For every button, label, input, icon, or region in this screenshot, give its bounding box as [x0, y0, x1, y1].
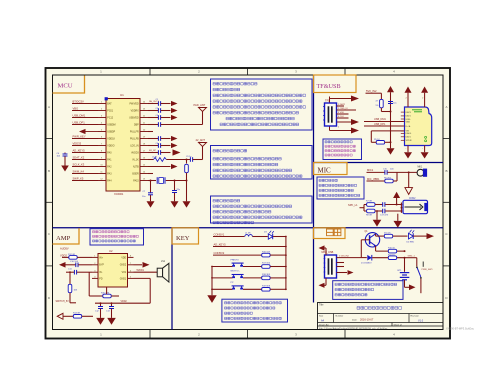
svg-text:PWR_KEY: PWR_KEY: [73, 134, 86, 138]
net port PAD_ANT triangle: [199, 108, 207, 112]
svg-text:R12 0R: R12 0R: [68, 254, 76, 256]
wire key row3 b: [270, 254, 286, 256]
wire row10: [148, 166, 171, 168]
wire row5 stub: [148, 131, 153, 133]
resistor key row6: [262, 288, 270, 292]
note box AMP line2: [93, 235, 139, 237]
wire U1 right row 1 b: [161, 103, 171, 105]
note box AMP border: [90, 229, 144, 245]
svg-text:R18 3K3: R18 3K3: [262, 274, 271, 276]
wire spk rowA b: [375, 204, 382, 206]
svg-text:R7 0R: R7 0R: [366, 201, 372, 203]
wire row12 b: [166, 180, 187, 182]
junction key left 6: [211, 288, 213, 290]
capacitor C11: [74, 270, 76, 275]
note box AMP line1: [93, 231, 130, 233]
right margin tick 1: [443, 138, 450, 140]
U1 right pin 4 stub: [140, 124, 148, 126]
note box 1 text line: [213, 83, 257, 86]
wire amp R13 link: [69, 272, 71, 284]
wire U1 right row 7 b: [161, 145, 171, 147]
left margin tick 1: [46, 138, 53, 140]
wire net BT/DC5V: [72, 103, 98, 105]
junction jack vcc: [396, 204, 398, 206]
wire amp row3 right: [134, 271, 158, 273]
svg-text:R8 0R: R8 0R: [366, 215, 372, 217]
svg-text:PA_OUT1: PA_OUT1: [149, 100, 160, 103]
power arrow amp out: [143, 262, 150, 268]
ground under C12: [96, 318, 105, 325]
note box 2 border: [211, 146, 313, 180]
capacitor C on row 3: [158, 115, 160, 120]
wire row4 a: [148, 124, 158, 126]
U3 green marking: [412, 110, 422, 112]
wire U1 right row 6 b: [161, 138, 171, 140]
note box 1 text line: [220, 123, 299, 126]
svg-text:5V0_IN2: 5V0_IN2: [366, 89, 377, 93]
U2 left pin 2 stub: [92, 264, 98, 266]
wire mic row2 a: [367, 180, 385, 182]
resistor R3 vertical: [185, 164, 189, 172]
power arrow right row 3: [171, 115, 178, 120]
top margin tick 1: [149, 68, 151, 75]
svg-text:KEY: KEY: [176, 235, 190, 242]
wire Q1 top row b: [393, 235, 408, 237]
wire key row1 a: [213, 236, 245, 238]
svg-text:MINI_USB: MINI_USB: [322, 251, 334, 254]
svg-text:XN290-BT-MP3.SchDoc: XN290-BT-MP3.SchDoc: [446, 326, 475, 330]
U3 green pad circle 2: [425, 140, 427, 142]
svg-text:Revision: Revision: [411, 315, 420, 317]
note box KEY text line: [225, 317, 282, 319]
svg-text:BAT: BAT: [107, 102, 112, 105]
svg-text:R19 6K8: R19 6K8: [262, 286, 271, 288]
ground under C13: [107, 318, 116, 325]
note box 2 text line: [213, 169, 292, 172]
svg-text:USBDP: USBDP: [107, 131, 115, 133]
note box charge text line: [335, 294, 367, 296]
wire jack gnd2 stem: [397, 214, 399, 221]
svg-text:MK1: MK1: [418, 166, 423, 168]
U1 right pin 8 stub: [140, 152, 148, 154]
svg-text:PA0: PA0: [107, 151, 112, 154]
svg-text:BSER: BSER: [132, 173, 139, 175]
wire key row1 b: [252, 236, 267, 238]
wire switch down: [420, 279, 422, 294]
wire emitter row: [376, 250, 405, 252]
resistor R13: [68, 284, 72, 292]
note box KEY text line: [225, 307, 275, 309]
note box 2 text line: [213, 163, 278, 166]
junction gnd1: [376, 210, 378, 212]
svg-text:USB_DP1: USB_DP1: [73, 120, 86, 124]
svg-text:VDD18: VDD18: [107, 138, 115, 140]
svg-text:SW2_1: SW2_1: [408, 255, 416, 257]
svg-text:Number: Number: [336, 314, 344, 317]
wire amp row3 b: [77, 271, 92, 273]
svg-text:A2TB: A2TB: [133, 165, 139, 168]
svg-text:4R_SP: 4R_SP: [149, 150, 156, 152]
svg-text:PULLFR: PULLFR: [130, 131, 139, 133]
svg-text:USBVDD: USBVDD: [129, 117, 139, 119]
svg-text:CON5V2: CON5V2: [214, 251, 225, 255]
title block project name pseudo-hanzi: [357, 307, 402, 310]
left margin tick 3: [46, 265, 53, 267]
power arrow right row 1: [171, 101, 178, 106]
junction key left 5: [211, 277, 213, 279]
U1 right pin 9 stub: [140, 159, 148, 161]
wire J3 shell top lead: [322, 247, 326, 249]
svg-text:Sheet of: Sheet of: [394, 323, 403, 326]
wire USB_DP: [364, 125, 404, 127]
U3 pin stub 7: [401, 132, 405, 134]
U3 pin stub 4: [401, 121, 405, 123]
note box 3 text line: [213, 200, 240, 203]
resistor R15: [103, 294, 111, 298]
svg-text:VDD: VDD: [121, 257, 126, 259]
capacitor C8: [172, 191, 177, 193]
note box MIC text line: [319, 189, 353, 191]
power arrow TF bottom: [351, 128, 359, 134]
section divider AMP/KEY: [171, 228, 173, 330]
wire battery minus down: [404, 280, 406, 288]
U2 right pin 4 stub: [128, 277, 134, 279]
svg-text:TF&USB: TF&USB: [317, 83, 341, 90]
net port left hollow: [57, 313, 63, 319]
junction rail C12: [100, 302, 102, 304]
switch SW1 contact 2: [420, 277, 422, 279]
note box 1 text line: [226, 117, 294, 120]
svg-text:C10 104: C10 104: [70, 261, 79, 263]
svg-text:PA1: PA1: [107, 158, 112, 161]
net port 42_ANT triangle: [199, 143, 207, 147]
connector J3 slot bar 1: [328, 258, 330, 274]
note box 3 border: [211, 196, 313, 223]
bottom margin tick 3: [344, 330, 346, 339]
resistor R2 zigzag: [154, 158, 167, 162]
svg-text:2 CMD_DI: 2 CMD_DI: [338, 108, 348, 110]
svg-text:AD_KEY5: AD_KEY5: [214, 242, 227, 246]
junction key left 4: [211, 266, 213, 268]
wire row4 right loop v: [149, 278, 151, 303]
section divider horizontal full: [53, 227, 444, 229]
svg-text:USBDM: USBDM: [107, 124, 115, 126]
connector J1 TF card body: [325, 103, 337, 126]
switch SW3 symbol: [232, 275, 244, 279]
svg-text:PAD_ANT: PAD_ANT: [194, 103, 206, 107]
power arrow J3 shell bottom: [319, 283, 325, 288]
wire key left bus: [211, 267, 213, 296]
ground arrow jack 2: [394, 221, 403, 228]
connector J3 mini-usb body: [325, 255, 337, 278]
wire U3 bottom stem b: [424, 146, 426, 153]
wire PWRKEY: [86, 131, 99, 133]
wire TF top arrow row: [330, 98, 352, 100]
charge section title pseudo-hanzi: [327, 229, 341, 236]
svg-text:PREV/V-: PREV/V-: [231, 259, 240, 261]
U2 left pin 3 stub: [92, 271, 98, 273]
wire mic row1 a: [367, 171, 385, 173]
svg-text:MIC_VBB1: MIC_VBB1: [367, 178, 380, 181]
resistor R9: [384, 232, 393, 238]
wire key row5 b: [243, 277, 262, 279]
wire TF mid arrow row: [337, 121, 352, 123]
wire LED to port: [413, 235, 427, 237]
svg-text:PA4: PA4: [107, 179, 112, 182]
svg-text:R14 0R: R14 0R: [73, 313, 81, 315]
top margin tick 2: [247, 68, 249, 75]
svg-text:R11 1K: R11 1K: [388, 254, 395, 256]
svg-text:1 DAT2: 1 DAT2: [338, 103, 346, 106]
wire TF pin 4: [337, 117, 349, 119]
wire C13 to gnd: [111, 309, 113, 318]
wire key row5 c: [270, 277, 286, 279]
wire C12 to gnd: [100, 309, 102, 318]
wire row4 b: [161, 124, 203, 126]
wire spk rowB b: [375, 210, 382, 212]
note box 3 text line: [213, 205, 292, 208]
capacitor C17: [383, 209, 385, 214]
svg-text:GND1: GND1: [120, 278, 127, 280]
U3 pin stub 2: [401, 115, 405, 117]
capacitor C on row 6: [158, 136, 160, 141]
wire row9 a: [148, 159, 154, 161]
svg-text:L1 0R: L1 0R: [245, 233, 251, 235]
wire J3 pin4: [337, 272, 348, 274]
U1 right pin 1 stub: [140, 103, 148, 105]
note box 1 text line: [213, 100, 302, 103]
U1 left pin 11 stub: [98, 173, 106, 175]
wire net VDD33: [72, 145, 98, 147]
svg-text:SDAT_K2: SDAT_K2: [73, 155, 85, 159]
connector J2 headphone jack body: [403, 200, 428, 213]
wire key row6 c: [270, 288, 286, 290]
wire R3 net to gnd: [186, 181, 188, 202]
svg-text:SPK_L1: SPK_L1: [348, 203, 358, 207]
wire TF pin 3: [337, 113, 349, 115]
wire U3 top stem a: [407, 93, 409, 107]
title block outline: [318, 303, 444, 330]
svg-text:B: B: [445, 169, 447, 173]
svg-text:SPDIF: SPDIF: [406, 140, 413, 142]
wire 42_ANT vertical: [202, 147, 204, 160]
U1 right pin 5 stub: [140, 131, 148, 133]
wire VDD33 branch down: [64, 152, 66, 154]
U1 left pin 12 stub: [98, 180, 106, 182]
power arrow above U3 a: [405, 87, 412, 93]
U1 corner mark: [105, 97, 108, 100]
ground hollow triangle mic: [405, 188, 413, 195]
wire J3 pin1: [337, 257, 362, 259]
connector J1 pin nubs: [323, 107, 325, 121]
capacitor C on row 2: [158, 108, 160, 113]
title block vline sheet: [391, 323, 393, 327]
svg-text:4 CLK: 4 CLK: [338, 116, 344, 118]
wire R3 top lead: [186, 160, 188, 164]
U1 right pin 2 stub: [140, 110, 148, 112]
wire key right bus: [285, 237, 287, 290]
U1 left pin 6 stub: [98, 138, 106, 140]
svg-text:GND2: GND2: [120, 265, 127, 267]
U3 pin stub 9: [401, 139, 405, 141]
wire net SCLK_K3: [72, 166, 98, 168]
U1 left pin 10 stub: [98, 166, 106, 168]
wire row9 b: [166, 159, 190, 161]
svg-text:PW/VDD: PW/VDD: [129, 103, 139, 105]
svg-text:A: A: [445, 105, 447, 109]
wire J3 shell bottom stub: [325, 278, 327, 285]
svg-text:D2 RED: D2 RED: [407, 242, 415, 244]
power arrow row10: [171, 164, 178, 169]
note box KEY text line: [225, 312, 253, 314]
wire mic row2 b: [393, 180, 397, 182]
note box charge text line: [335, 288, 374, 290]
note box KEY text line: [225, 302, 282, 304]
junction rail C13: [111, 302, 113, 304]
svg-text:IN+: IN+: [99, 257, 103, 259]
charge section label box: [314, 228, 346, 239]
speaker LS1 symbol: [157, 263, 169, 282]
U3 pin stub 8: [401, 136, 405, 138]
svg-text:VBG: VBG: [73, 106, 79, 110]
note box 3 text line: [213, 216, 302, 219]
wire net USB_DP1: [72, 124, 98, 126]
wire row12 a: [148, 180, 156, 182]
LED D3 symbol: [268, 231, 274, 239]
junction jack bus: [401, 204, 403, 206]
svg-text:CON2: CON2: [409, 198, 416, 200]
switch SW2 symbol: [232, 263, 244, 267]
svg-text:Title: Title: [319, 304, 324, 307]
svg-text:LDO_IN: LDO_IN: [130, 145, 139, 147]
svg-text:VDD2: VDD2: [121, 301, 128, 303]
svg-text:IN_JK: IN_JK: [132, 159, 139, 161]
junction rail: [390, 111, 392, 113]
junction bat top a: [404, 250, 406, 252]
svg-text:MCU: MCU: [58, 83, 73, 90]
bottom margin tick 2: [247, 330, 249, 339]
wire 5V row through diode a: [361, 257, 367, 259]
wire amp row2 right: [134, 264, 143, 266]
ground under C8: [171, 201, 179, 207]
svg-text:LS1: LS1: [161, 261, 166, 263]
MIC section label box: [314, 163, 348, 175]
junction key right bus: [285, 246, 287, 248]
note box charge text line: [335, 283, 397, 285]
U1 left pin 5 stub: [98, 131, 106, 133]
wire spk split vertical: [363, 205, 365, 212]
wire fb up: [88, 272, 90, 296]
wire net PWR_KEY: [72, 138, 98, 140]
svg-text:File: C:\Users\Admin\Desktop\X: File: C:\Users\Admin\Desktop\XN290-BT-MP…: [319, 327, 388, 330]
svg-text:DAT3: DAT3: [406, 111, 412, 114]
resistor R14: [73, 315, 81, 319]
svg-text:B: B: [48, 169, 50, 173]
capacitor C on row 7: [158, 143, 160, 148]
junction key right bus: [285, 254, 287, 256]
wire U1 right row 1 a: [148, 103, 158, 105]
LED D2 symbol: [409, 230, 415, 239]
wire U1 right row 2 a: [148, 110, 158, 112]
transistor Q1 body: [365, 233, 379, 247]
left margin tick 2: [46, 201, 53, 203]
note box KEY border: [222, 299, 288, 322]
svg-text:VBB: VBB: [406, 121, 411, 123]
wire cap rail: [95, 302, 150, 304]
bottom margin tick 1: [149, 330, 151, 339]
svg-text:DAD0: DAD0: [406, 132, 412, 135]
wire net SWM_K4: [72, 173, 98, 175]
U2 left pin 4 stub: [92, 277, 98, 279]
junction mic node: [408, 171, 410, 173]
wire VCC stem: [390, 92, 392, 148]
capacitor C6 row9: [190, 157, 192, 162]
U1 right pin 12 stub: [140, 180, 148, 182]
U3 pin stub 5: [401, 125, 405, 127]
power arrow jack VCC: [393, 192, 400, 198]
wire row11 stub: [148, 173, 153, 175]
wire 5V0_IN horizontal: [366, 92, 382, 94]
wire branch vertical: [64, 153, 66, 154]
power arrow right row 7: [171, 143, 178, 148]
svg-text:R6 2K2: R6 2K2: [384, 177, 392, 179]
resistor R5: [374, 139, 385, 144]
inner border frame: [53, 75, 444, 330]
note box TF border: [323, 139, 362, 160]
ground under rail: [387, 148, 395, 154]
wire key row2: [213, 246, 286, 248]
wire net USB_DM1: [72, 117, 98, 119]
wire jack gnd1 stem: [376, 211, 378, 220]
capacitor C7: [148, 193, 153, 195]
wire C7 to gnd: [150, 195, 152, 201]
wire amp R13 down: [69, 293, 71, 303]
wire key row3 a: [213, 254, 262, 256]
svg-text:USB_DM1: USB_DM1: [374, 118, 386, 121]
wire row9 c: [193, 159, 203, 161]
junction bat top b: [404, 257, 406, 259]
wire R4 to rail: [381, 111, 390, 113]
svg-text:PA3: PA3: [107, 172, 112, 175]
component U3 USB plug body: [405, 107, 432, 146]
resistor key row4: [262, 265, 270, 269]
wire usb row6: [371, 130, 404, 132]
wire U1 right row 3 a: [148, 117, 158, 119]
svg-text:BYP: BYP: [99, 265, 104, 267]
svg-text:DBP: DBP: [134, 124, 139, 126]
wire USB_DM: [364, 121, 404, 123]
resistor R10: [388, 247, 397, 253]
svg-text:R10 1K: R10 1K: [388, 247, 396, 249]
U2 left pin 1 stub: [92, 256, 98, 258]
wire amp row1 a: [62, 256, 69, 258]
note box 2 text line: [213, 175, 302, 178]
wire key row4 b: [243, 266, 262, 268]
svg-text:DAT1: DAT1: [406, 115, 412, 118]
title block line row1: [318, 313, 444, 315]
resistor R16: [262, 253, 270, 257]
svg-text:2016-10-07: 2016-10-07: [360, 318, 374, 322]
microphone MK1 body: [417, 169, 427, 177]
svg-text:5%: 5%: [376, 105, 379, 107]
resistor R4: [380, 99, 384, 107]
svg-text:SWM_K4: SWM_K4: [73, 169, 85, 173]
svg-text:10K: 10K: [74, 290, 78, 292]
U1 left pin 4 stub: [98, 124, 106, 126]
note box 1 text line: [213, 94, 306, 97]
wire U1 right row 6 a: [148, 138, 158, 140]
svg-text:U1: U1: [120, 93, 124, 97]
